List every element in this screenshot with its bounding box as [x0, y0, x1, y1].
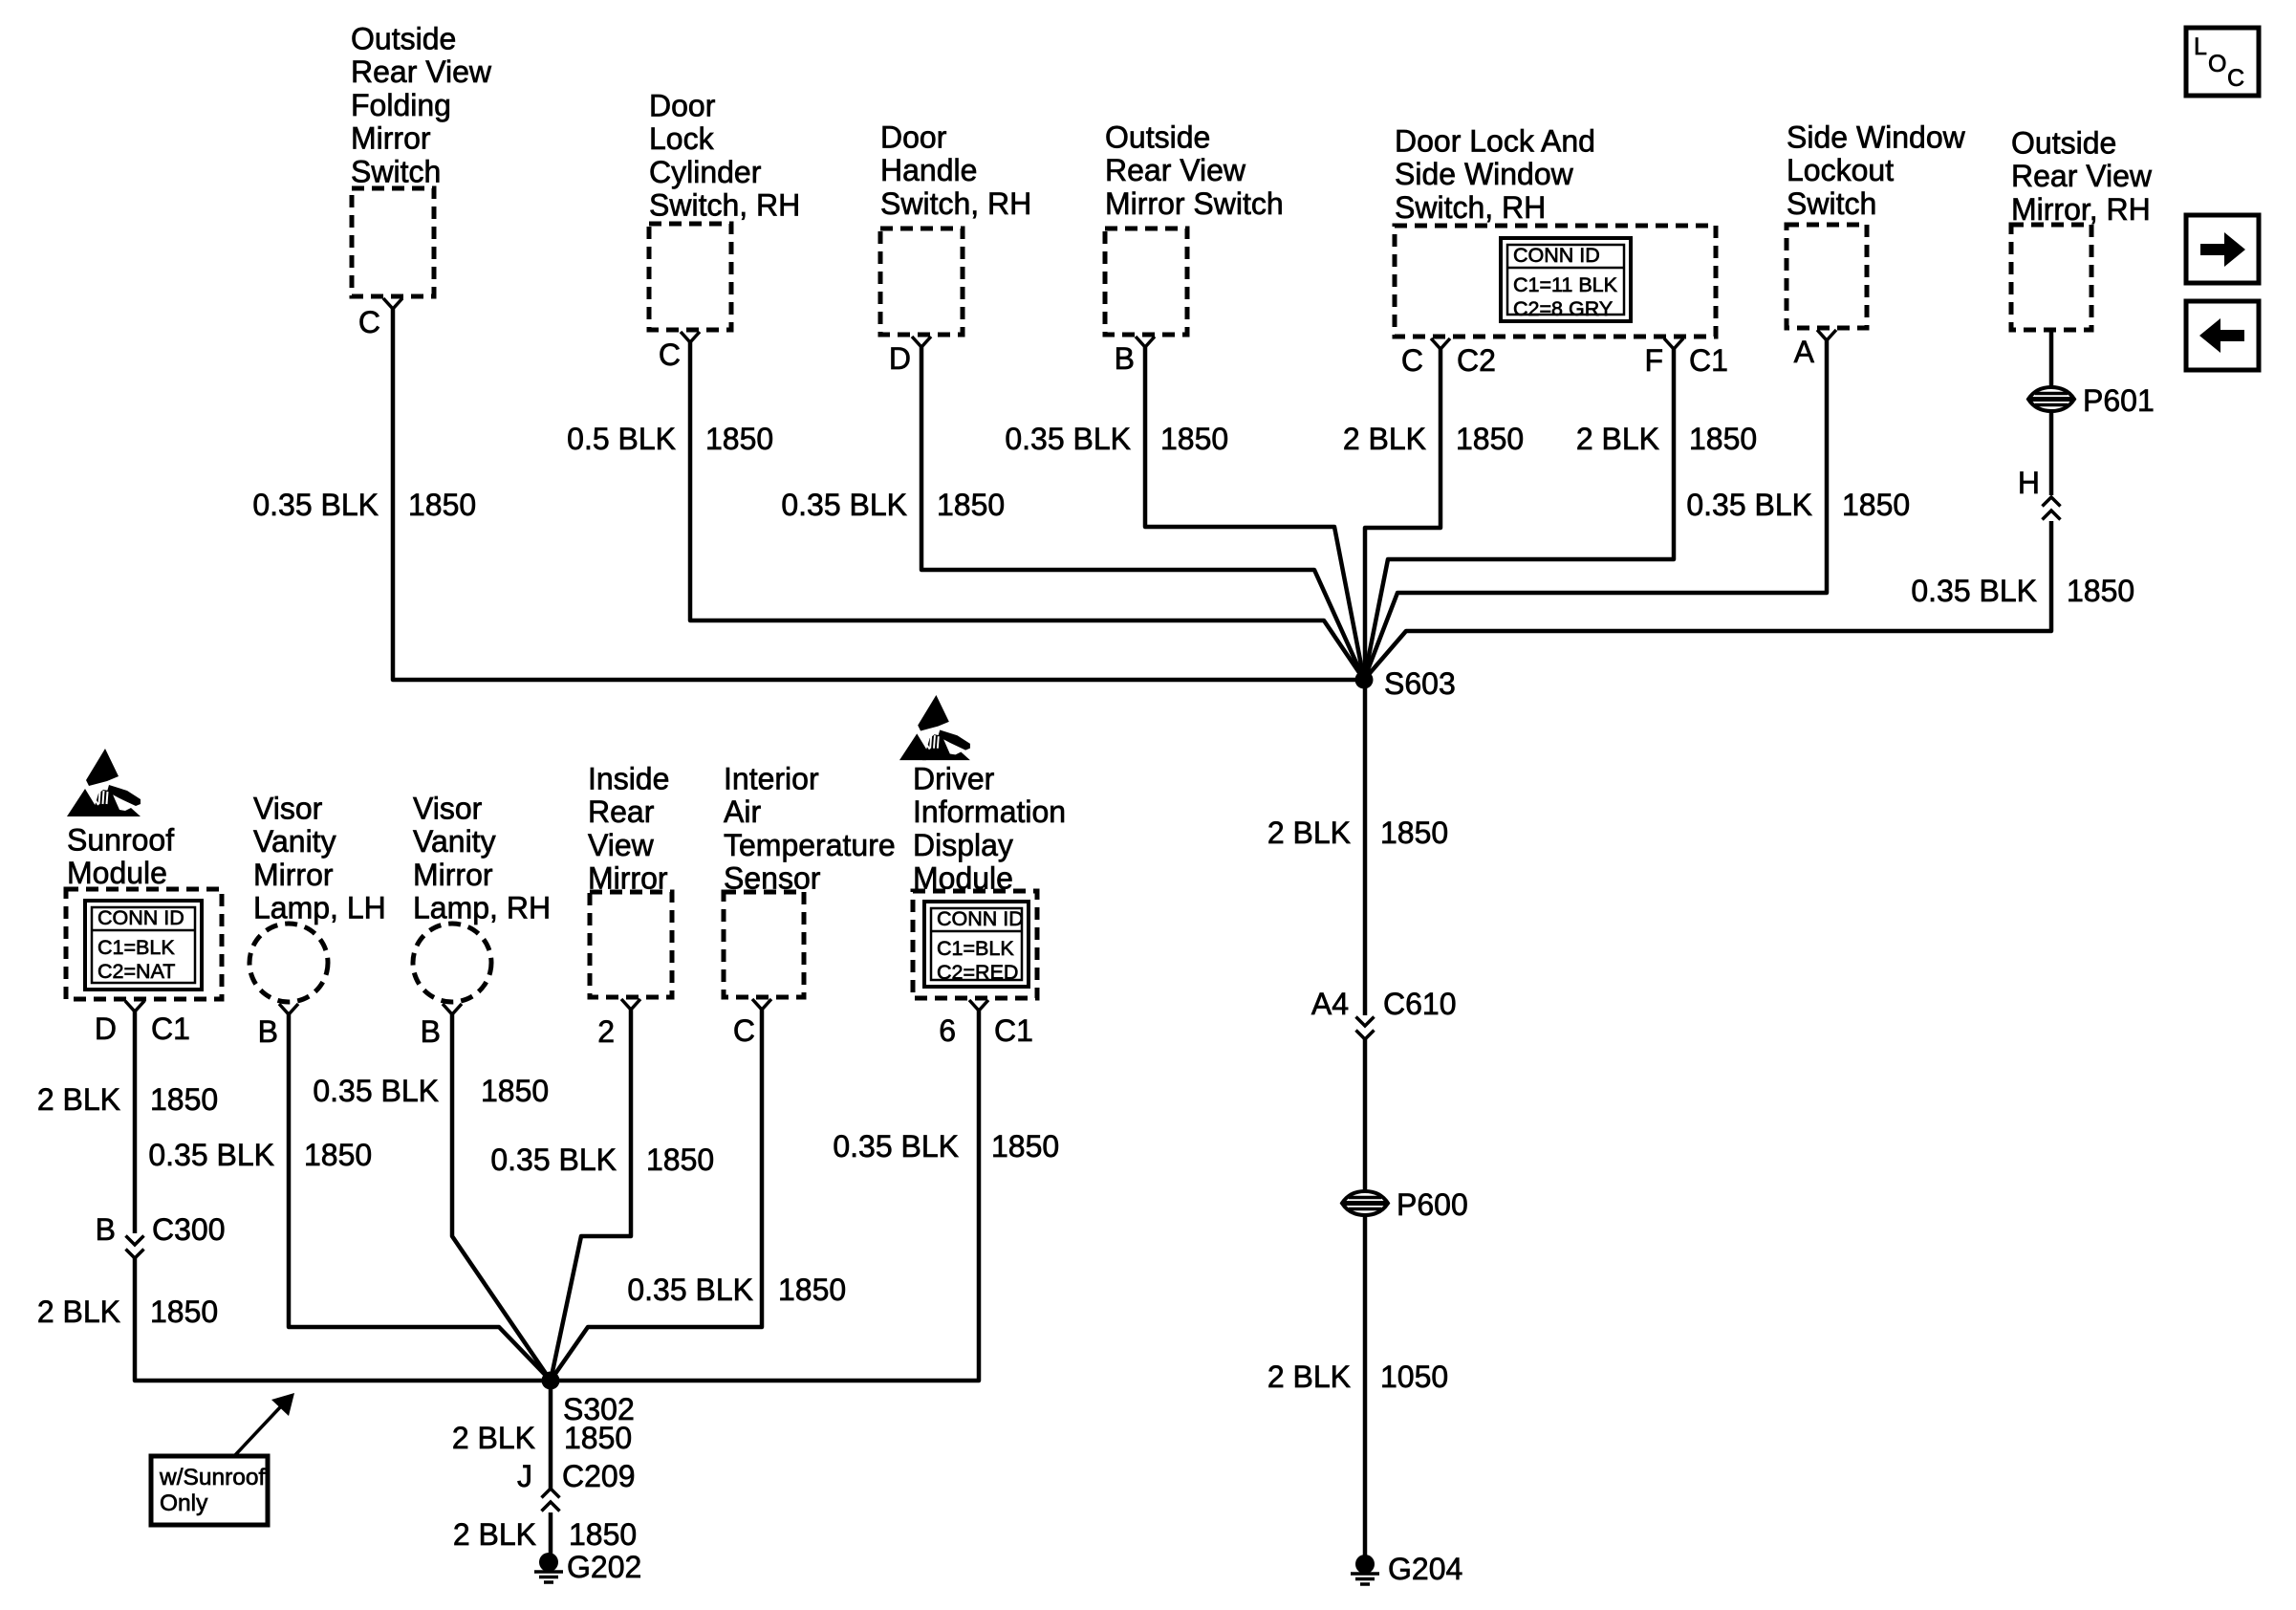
svg-text:Rear View: Rear View — [1105, 153, 1246, 187]
svg-text:C2=RED: C2=RED — [937, 961, 1018, 984]
connector C610 labels A4 and C610 — [1311, 987, 1457, 1021]
wire label 0.35 BLK 1850 (door handle wire) — [781, 488, 1005, 522]
visor vanity mirror lamp RH circle — [413, 924, 491, 1002]
svg-text:Temperature: Temperature — [724, 828, 896, 862]
pin F (C1) of door lock and side window switch — [1664, 338, 1683, 349]
svg-text:0.35 BLK: 0.35 BLK — [252, 488, 379, 522]
label: Door Handle Switch RH — [880, 120, 1031, 221]
outside rear view mirror switch box — [1105, 228, 1187, 335]
in-line connector C209 chevrons — [542, 1489, 560, 1512]
svg-text:Module: Module — [67, 856, 167, 890]
side window lockout switch box — [1787, 225, 1867, 328]
svg-text:1850: 1850 — [304, 1138, 372, 1172]
svg-text:Side Window: Side Window — [1787, 120, 1966, 155]
svg-text:0.35 BLK: 0.35 BLK — [313, 1074, 439, 1108]
svg-text:C1: C1 — [1689, 343, 1728, 378]
pin D of door handle switch — [912, 337, 931, 347]
wire label 2 BLK 1850 (F wire) — [1576, 422, 1757, 456]
svg-text:2 BLK: 2 BLK — [452, 1421, 535, 1455]
svg-text:C: C — [733, 1013, 755, 1048]
svg-text:Door Lock And: Door Lock And — [1395, 124, 1595, 159]
wire label 0.35 BLK 1850 (mirror switch wire) — [1005, 422, 1228, 456]
svg-text:Outside: Outside — [351, 22, 456, 56]
outside rear view folding mirror switch box — [352, 188, 434, 296]
door handle switch box — [880, 228, 963, 335]
svg-text:Air: Air — [724, 794, 761, 829]
label: Visor Vanity Mirror Lamp LH — [253, 792, 386, 925]
svg-text:6: 6 — [939, 1013, 956, 1048]
svg-text:B: B — [1115, 341, 1135, 376]
svg-text:Rear: Rear — [588, 794, 655, 829]
wire label 0.35 BLK 1850 (inside mirror wire) — [490, 1142, 714, 1177]
left arrow nav box — [2186, 301, 2259, 370]
wire label 2 BLK 1850 (sunroof wire above C300) — [37, 1082, 218, 1117]
wire label 0.35 BLK 1850 (mirror RH wire) — [1911, 574, 2134, 608]
pin C of folding mirror switch — [383, 298, 402, 309]
svg-text:Vanity: Vanity — [413, 824, 496, 859]
ESD sensitive device symbol (driver information display module) — [899, 695, 970, 760]
ESD sensitive device symbol (sunroof module) — [67, 749, 141, 816]
wire from sunroof module pin D to C300 — [133, 1012, 138, 1233]
svg-text:F: F — [1644, 343, 1663, 378]
wire from S603 down to C610 — [1363, 680, 1368, 1015]
svg-text:1850: 1850 — [778, 1273, 846, 1307]
wire from visor lamp LH pin B to S302 — [289, 1014, 551, 1381]
svg-text:S603: S603 — [1384, 666, 1456, 701]
pin C (C2) of door lock and side window switch — [1431, 338, 1450, 349]
label: Interior Air Temperature Sensor — [724, 762, 896, 896]
sunroof module box — [66, 889, 222, 999]
wire from inside rear view mirror pin 2 to S302 — [551, 1010, 631, 1381]
wire from door lock and side window switch pin C2 to S603 — [1365, 349, 1440, 673]
svg-text:1850: 1850 — [569, 1517, 637, 1552]
svg-text:C1: C1 — [994, 1013, 1033, 1048]
svg-text:B: B — [258, 1014, 278, 1049]
wire from interior air temperature sensor pin C to S302 — [551, 1010, 762, 1381]
svg-text:1850: 1850 — [408, 488, 476, 522]
svg-text:A4: A4 — [1311, 987, 1349, 1021]
grommet P600 — [1342, 1191, 1388, 1215]
svg-text:0.35 BLK: 0.35 BLK — [627, 1273, 753, 1307]
svg-text:2 BLK: 2 BLK — [37, 1082, 120, 1117]
svg-text:2: 2 — [597, 1014, 615, 1049]
wire label 2 BLK 1050 (P600 to G204) — [1267, 1360, 1448, 1394]
svg-text:1850: 1850 — [1160, 422, 1228, 456]
svg-text:Lamp, RH: Lamp, RH — [413, 891, 551, 925]
svg-text:C: C — [659, 337, 681, 372]
wire from outside rear view mirror switch pin B to S603 — [1145, 347, 1364, 680]
wire label 0.35 BLK 1850 (folding mirror wire) — [252, 488, 476, 522]
svg-text:0.35 BLK: 0.35 BLK — [781, 488, 907, 522]
svg-text:2 BLK: 2 BLK — [453, 1517, 536, 1552]
svg-text:C2: C2 — [1457, 343, 1496, 378]
svg-text:C: C — [1401, 343, 1423, 378]
svg-text:Rear View: Rear View — [351, 54, 492, 89]
svg-text:2 BLK: 2 BLK — [37, 1295, 120, 1329]
svg-text:1850: 1850 — [1456, 422, 1524, 456]
svg-text:Mirror, RH: Mirror, RH — [2011, 192, 2151, 227]
svg-text:C610: C610 — [1383, 987, 1457, 1021]
svg-text:Switch, RH: Switch, RH — [649, 188, 800, 223]
svg-text:1850: 1850 — [2067, 574, 2134, 608]
svg-text:Visor: Visor — [413, 792, 483, 826]
svg-text:A: A — [1794, 335, 1815, 369]
svg-text:G204: G204 — [1388, 1552, 1462, 1586]
wire label 2 BLK 1850 (S302 to C209) — [452, 1421, 632, 1455]
w/Sunroof Only pointer arrow — [235, 1393, 294, 1455]
wire label 2 BLK 1850 (sunroof wire below C300) — [37, 1295, 218, 1329]
svg-text:Inside: Inside — [588, 762, 669, 796]
w/Sunroof Only callout box — [151, 1456, 268, 1525]
wire from door lock cylinder switch pin C to S603 — [690, 342, 1364, 680]
svg-text:Mirror: Mirror — [253, 858, 334, 892]
svg-text:CONN ID: CONN ID — [937, 907, 1024, 930]
svg-text:1850: 1850 — [150, 1295, 218, 1329]
in-line connector C610 chevrons — [1356, 1017, 1375, 1040]
svg-text:0.35 BLK: 0.35 BLK — [833, 1129, 959, 1164]
connector C209 labels J and C209 — [517, 1459, 636, 1493]
label: Visor Vanity Mirror Lamp RH — [413, 792, 551, 925]
svg-text:CONN ID: CONN ID — [97, 906, 184, 929]
svg-text:Lock: Lock — [649, 121, 715, 156]
wire from P601 to H connector — [2049, 410, 2054, 495]
svg-text:P600: P600 — [1397, 1187, 1468, 1222]
svg-text:1850: 1850 — [564, 1421, 632, 1455]
right arrow nav box — [2186, 215, 2259, 283]
wire from H connector to S603 — [1364, 521, 2051, 680]
svg-text:Side Window: Side Window — [1395, 157, 1574, 191]
svg-text:Door: Door — [880, 120, 947, 155]
wire label 0.35 BLK 1850 (lockout switch wire) — [1686, 488, 1910, 522]
outside rear view mirror RH box — [2011, 225, 2091, 330]
door lock and side window switch box — [1395, 226, 1716, 337]
svg-text:1050: 1050 — [1380, 1360, 1448, 1394]
svg-text:Interior: Interior — [724, 762, 819, 796]
wire from door handle switch pin D to S603 — [921, 347, 1364, 680]
wire label 0.5 BLK 1850 (door lock cylinder wire) — [567, 422, 773, 456]
pin B of visor vanity mirror lamp LH — [279, 1004, 298, 1014]
svg-text:Switch, RH: Switch, RH — [1395, 190, 1546, 225]
svg-text:B: B — [421, 1014, 441, 1049]
svg-text:Sunroof: Sunroof — [67, 823, 174, 858]
svg-text:CONN ID: CONN ID — [1513, 244, 1600, 267]
wire from folding mirror switch pin C to S603 — [393, 309, 1357, 680]
label: Sunroof Module — [67, 823, 174, 891]
conn id table of door lock and side window switch — [1501, 238, 1631, 321]
svg-text:w/Sunroof: w/Sunroof — [159, 1465, 266, 1490]
svg-text:C2=8 GRY: C2=8 GRY — [1513, 297, 1613, 320]
pin B of visor vanity mirror lamp RH — [443, 1004, 462, 1014]
svg-text:C1=BLK: C1=BLK — [937, 937, 1014, 960]
label: Driver Information Display Module — [913, 762, 1066, 896]
label: Outside Rear View Mirror Switch — [1105, 120, 1284, 221]
svg-text:1850: 1850 — [1689, 422, 1757, 456]
pin C of interior air temperature sensor — [752, 999, 771, 1010]
svg-text:Driver: Driver — [913, 762, 995, 796]
conn id table of driver information display module — [924, 902, 1029, 987]
wire from side window lockout switch pin A to S603 — [1364, 340, 1827, 680]
wire from outside rear view mirror RH to P601 — [2049, 330, 2054, 388]
svg-text:0.35 BLK: 0.35 BLK — [490, 1142, 617, 1177]
svg-text:0.35 BLK: 0.35 BLK — [1005, 422, 1131, 456]
svg-text:Mirror: Mirror — [351, 121, 431, 156]
label: Outside Rear View Mirror RH — [2011, 126, 2153, 227]
svg-text:Lamp, LH: Lamp, LH — [253, 891, 386, 925]
wire label 2 BLK 1850 (C209 to G202) — [453, 1517, 637, 1552]
svg-text:0.35 BLK: 0.35 BLK — [1911, 574, 2037, 608]
pin 2 of inside rear view mirror — [621, 999, 640, 1010]
ground G204 — [1351, 1555, 1379, 1584]
wire from visor lamp RH pin B to S302 — [452, 1014, 551, 1381]
svg-text:2 BLK: 2 BLK — [1267, 1360, 1351, 1394]
svg-text:1850: 1850 — [1842, 488, 1910, 522]
svg-text:Lockout: Lockout — [1787, 153, 1894, 187]
svg-text:Display: Display — [913, 828, 1013, 862]
svg-text:D: D — [889, 341, 911, 376]
svg-text:1850: 1850 — [646, 1142, 714, 1177]
label: Outside Rear View Folding Mirror Switch — [351, 22, 492, 189]
door lock cylinder switch box — [649, 224, 731, 330]
label: Side Window Lockout Switch — [1787, 120, 1966, 221]
svg-text:Only: Only — [160, 1490, 208, 1516]
svg-text:Mirror: Mirror — [413, 858, 493, 892]
label: Door Lock And Side Window Switch RH — [1395, 124, 1595, 225]
in-line connector C300 chevrons — [126, 1236, 144, 1259]
wire from door lock and side window switch pin F to S603 — [1364, 349, 1674, 680]
wire label 0.35 BLK 1850 (driver info display wire) — [833, 1129, 1059, 1164]
svg-text:C: C — [2227, 65, 2244, 92]
svg-text:0.5 BLK: 0.5 BLK — [567, 422, 676, 456]
pin C of door lock cylinder switch — [681, 332, 700, 342]
svg-text:Rear View: Rear View — [2011, 159, 2153, 193]
svg-text:Cylinder: Cylinder — [649, 155, 762, 189]
svg-text:P601: P601 — [2083, 383, 2155, 418]
svg-text:B: B — [96, 1212, 116, 1247]
svg-text:C209: C209 — [562, 1459, 636, 1493]
svg-text:Switch, RH: Switch, RH — [880, 186, 1031, 221]
svg-text:Handle: Handle — [880, 153, 977, 187]
svg-text:2 BLK: 2 BLK — [1267, 816, 1351, 850]
wire from C300 to S302 and on to driver information display module pin 6 — [135, 1011, 979, 1381]
wire label 2 BLK 1850 (C2 wire) — [1343, 422, 1524, 456]
pin A of side window lockout switch — [1817, 330, 1836, 340]
connector C300 labels B and C300 — [96, 1212, 226, 1247]
svg-text:D: D — [95, 1012, 117, 1046]
svg-text:Switch: Switch — [1787, 186, 1876, 221]
grommet P601 — [2028, 387, 2074, 411]
svg-text:1850: 1850 — [991, 1129, 1059, 1164]
svg-text:2 BLK: 2 BLK — [1343, 422, 1426, 456]
svg-text:C1=11 BLK: C1=11 BLK — [1513, 273, 1618, 296]
pin D (C1) of sunroof module — [125, 1001, 144, 1012]
label: Inside Rear View Mirror — [588, 762, 669, 896]
svg-text:J: J — [517, 1459, 532, 1493]
svg-text:1850: 1850 — [937, 488, 1005, 522]
splice node S603 — [1355, 671, 1374, 689]
wire from S302 down to C209 — [549, 1381, 553, 1490]
wire label 0.35 BLK 1850 (air temperature sensor wire) — [627, 1273, 846, 1307]
svg-text:C2=NAT: C2=NAT — [97, 960, 175, 983]
wire from C610 to P600 — [1363, 1039, 1368, 1192]
svg-text:1850: 1850 — [705, 422, 773, 456]
svg-text:O: O — [2208, 51, 2226, 77]
svg-text:Switch: Switch — [351, 154, 441, 188]
svg-text:G202: G202 — [567, 1550, 641, 1584]
inside rear view mirror box — [590, 892, 672, 997]
svg-text:Door: Door — [649, 89, 716, 123]
pin B of outside rear view mirror switch — [1136, 337, 1155, 347]
wire label 0.35 BLK 1850 (visor lamp RH wire) — [313, 1074, 549, 1108]
in-line connector H chevrons — [2043, 497, 2061, 520]
svg-text:0.35 BLK: 0.35 BLK — [1686, 488, 1812, 522]
svg-text:L: L — [2194, 33, 2207, 60]
svg-text:Mirror Switch: Mirror Switch — [1105, 186, 1284, 221]
svg-text:1850: 1850 — [1380, 816, 1448, 850]
svg-text:Visor: Visor — [253, 792, 323, 826]
svg-text:0.35 BLK: 0.35 BLK — [148, 1138, 274, 1172]
LOC page reference box — [2186, 28, 2259, 96]
pin 6 (C1) of driver information display module — [969, 1000, 988, 1011]
wire from C209 to G202 — [549, 1512, 553, 1555]
svg-text:2 BLK: 2 BLK — [1576, 422, 1659, 456]
svg-text:1850: 1850 — [150, 1082, 218, 1117]
interior air temperature sensor box — [724, 892, 804, 997]
svg-text:C1=BLK: C1=BLK — [97, 936, 175, 959]
wire from P600 to G204 — [1363, 1214, 1368, 1558]
svg-text:C300: C300 — [152, 1212, 226, 1247]
svg-text:View: View — [588, 828, 655, 862]
conn id table of sunroof module — [85, 901, 202, 990]
driver information display module box — [913, 891, 1037, 998]
wire label 0.35 BLK 1850 (visor lamp LH wire) — [148, 1138, 372, 1172]
wire label 2 BLK 1850 (S603 to C610) — [1267, 816, 1448, 850]
label: Door Lock Cylinder Switch RH — [649, 89, 800, 223]
svg-text:C: C — [358, 305, 380, 339]
svg-text:Folding: Folding — [351, 88, 451, 122]
svg-text:Outside: Outside — [2011, 126, 2116, 161]
svg-text:C1: C1 — [151, 1012, 190, 1046]
svg-text:H: H — [2018, 466, 2040, 500]
ground G202 — [534, 1553, 563, 1582]
svg-text:Information: Information — [913, 794, 1066, 829]
svg-text:1850: 1850 — [481, 1074, 549, 1108]
svg-text:Vanity: Vanity — [253, 824, 336, 859]
svg-text:Outside: Outside — [1105, 120, 1210, 155]
visor vanity mirror lamp LH circle — [249, 924, 328, 1002]
splice node S302 — [542, 1372, 560, 1390]
